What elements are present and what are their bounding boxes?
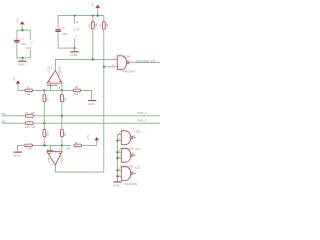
svg-text:100n: 100n (21, 42, 27, 46)
comparator IC1A (points up) (46, 66, 62, 89)
supply +5V P1 (16, 18, 25, 28)
capacitor C6 (55, 26, 68, 36)
wire branch to gate A pin2 (104, 66, 113, 68)
svg-text:R5: R5 (29, 147, 33, 151)
NAND gate IC2A 74HC00N (112, 55, 135, 74)
svg-text:IN1: IN1 (1, 112, 6, 116)
NAND gate IC2D 74HC00N (117, 165, 140, 186)
resistor R9 (70, 85, 83, 96)
NAND gate IC2B 74HC00N (118, 129, 140, 150)
resistor R3b (right chain upper) (61, 90, 68, 115)
svg-text:10k: 10k (105, 23, 109, 28)
svg-text:10k: 10k (31, 125, 36, 129)
svg-text:100n: 100n (62, 32, 68, 36)
svg-text:R4: R4 (63, 98, 67, 102)
svg-text:1: 1 (51, 67, 53, 70)
ground GND1 (18, 58, 27, 67)
svg-text:IC1B: IC1B (47, 157, 51, 163)
svg-text:IC2B: IC2B (135, 129, 141, 133)
svg-text:R7: R7 (99, 23, 103, 27)
svg-text:IC2C: IC2C (135, 147, 141, 151)
ground GND4 (13, 149, 22, 158)
svg-text:IC1A: IC1A (46, 66, 50, 72)
wire gnd bus IC2 gates (116, 135, 119, 179)
svg-text:7: 7 (76, 35, 78, 38)
supply +5V P3 (12, 76, 20, 87)
wire IN1 (2, 115, 22, 117)
wire +5V rail top (58, 16, 104, 26)
svg-text:+5V: +5V (91, 2, 95, 7)
junction rail at IC2P (73, 14, 75, 16)
wire +5V P3 corner (18, 87, 22, 91)
junction bottom node (21, 57, 23, 59)
resistor R3c (left chain lower) (43, 123, 49, 145)
resistor R2 (22, 85, 36, 96)
svg-text:74HC00N: 74HC00N (122, 69, 135, 73)
svg-text:8: 8 (31, 41, 33, 44)
svg-text:IN2: IN2 (1, 119, 6, 123)
wire R8 to +5V P4 (85, 144, 97, 146)
svg-text:R10: R10 (25, 125, 30, 129)
junction bus pin10 (116, 157, 118, 159)
wire R9 to GND3 (84, 90, 92, 95)
svg-text:IC2P: IC2P (74, 28, 80, 32)
svg-text:R1: R1 (25, 111, 29, 115)
wire comp A input stubs (49, 88, 51, 90)
svg-text:1k5: 1k5 (74, 92, 79, 96)
supply +5V P4 (86, 135, 99, 146)
svg-text:R6: R6 (88, 23, 92, 27)
svg-text:14: 14 (76, 21, 79, 24)
svg-text:10k: 10k (94, 23, 98, 28)
junction left chain bottom (43, 144, 45, 146)
svg-text:GND: GND (88, 102, 96, 106)
svg-text:IC2D: IC2D (135, 165, 141, 169)
junction bus pin13 (116, 175, 118, 177)
svg-text:10k: 10k (27, 92, 32, 96)
junction rail +5V P2 (97, 14, 99, 16)
wire C7 loop (21, 28, 23, 31)
svg-text:C7: C7 (21, 37, 25, 41)
svg-text:3: 3 (59, 87, 61, 90)
wire gate A output (132, 62, 160, 64)
junction comp A in2 / right chain tap (61, 89, 63, 91)
svg-text:R2: R2 (27, 85, 31, 89)
junction C6/IC2P gnd node (73, 47, 75, 49)
svg-text:GND: GND (18, 63, 26, 67)
ground GND3 (88, 95, 96, 106)
junction left chain tap (43, 89, 45, 91)
junction comp B in2 / right chain bottom (61, 144, 63, 146)
capacitor C7 (14, 37, 27, 46)
wire IN2 (2, 122, 22, 124)
svg-text:LM293D: LM293D (60, 155, 64, 165)
resistor R10 (22, 122, 36, 129)
comparator IC1B (points down) (47, 149, 64, 168)
svg-text:74HC00N: 74HC00N (124, 182, 137, 186)
svg-text:PAD_2: PAD_2 (137, 119, 147, 123)
svg-text:C6: C6 (62, 26, 66, 30)
resistor R8 (67, 141, 85, 151)
svg-text:+5V: +5V (16, 18, 20, 23)
svg-text:IC1P: IC1P (26, 46, 32, 50)
junction bus pin9 (116, 151, 118, 153)
svg-text:IC2A: IC2A (125, 55, 131, 59)
resistor R3d (right chain lower) (61, 116, 68, 146)
ground GND5 (113, 178, 122, 187)
IC2P power pins 74HC00 (74, 16, 80, 49)
junction rail R6 (92, 14, 94, 16)
resistor R5 (22, 144, 36, 151)
NAND gate IC2C 74HC00N (117, 147, 140, 168)
resistor R1 (22, 111, 36, 117)
svg-text:ASLCDR_EN: ASLCDR_EN (136, 59, 156, 63)
svg-text:2k2: 2k2 (63, 132, 67, 137)
svg-text:R8: R8 (67, 147, 71, 151)
wire R7 long column (103, 32, 105, 172)
resistor R7 (99, 19, 109, 32)
wire bottom reference (18, 145, 22, 148)
resistor R3 (left chain upper) (43, 90, 49, 123)
IC1P power pins LM293 (29, 37, 31, 41)
supply +5V P2 (91, 2, 101, 15)
junction right chain on IN1 (61, 115, 63, 117)
svg-text:10k: 10k (31, 111, 36, 115)
svg-text:R9: R9 (75, 85, 79, 89)
wire reference net (36, 89, 71, 91)
svg-text:+5V: +5V (86, 135, 90, 140)
junction top node (21, 29, 23, 31)
junction R6 tap (92, 58, 94, 60)
svg-text:LM293D: LM293D (58, 66, 62, 76)
ground GND2 (70, 48, 79, 57)
resistor R6 (88, 16, 98, 33)
junction bus pin12 (116, 169, 118, 171)
svg-text:2: 2 (47, 87, 49, 90)
wire C6 bottom to gnd node (58, 35, 75, 48)
svg-text:6: 6 (59, 148, 61, 151)
junction bus pin5 (116, 139, 118, 141)
svg-text:PAD_1: PAD_1 (137, 111, 147, 115)
svg-text:GND: GND (113, 183, 121, 187)
svg-text:2k2: 2k2 (45, 132, 49, 137)
wire R6 to gate pin1 net (92, 32, 94, 59)
svg-text:R3: R3 (45, 98, 49, 102)
wire comparator A out to gate A pin1 (55, 59, 113, 67)
wire comp B output to R7 column (55, 168, 103, 172)
svg-text:7: 7 (51, 165, 53, 168)
junction left chain on IN2 (43, 122, 45, 124)
svg-text:+5V: +5V (12, 76, 16, 81)
wire comp B input stubs (49, 145, 51, 148)
svg-text:GND: GND (70, 53, 78, 57)
wire reference bottom net (36, 144, 71, 146)
svg-text:GND: GND (13, 154, 21, 158)
junction pin2 branch (103, 66, 105, 68)
